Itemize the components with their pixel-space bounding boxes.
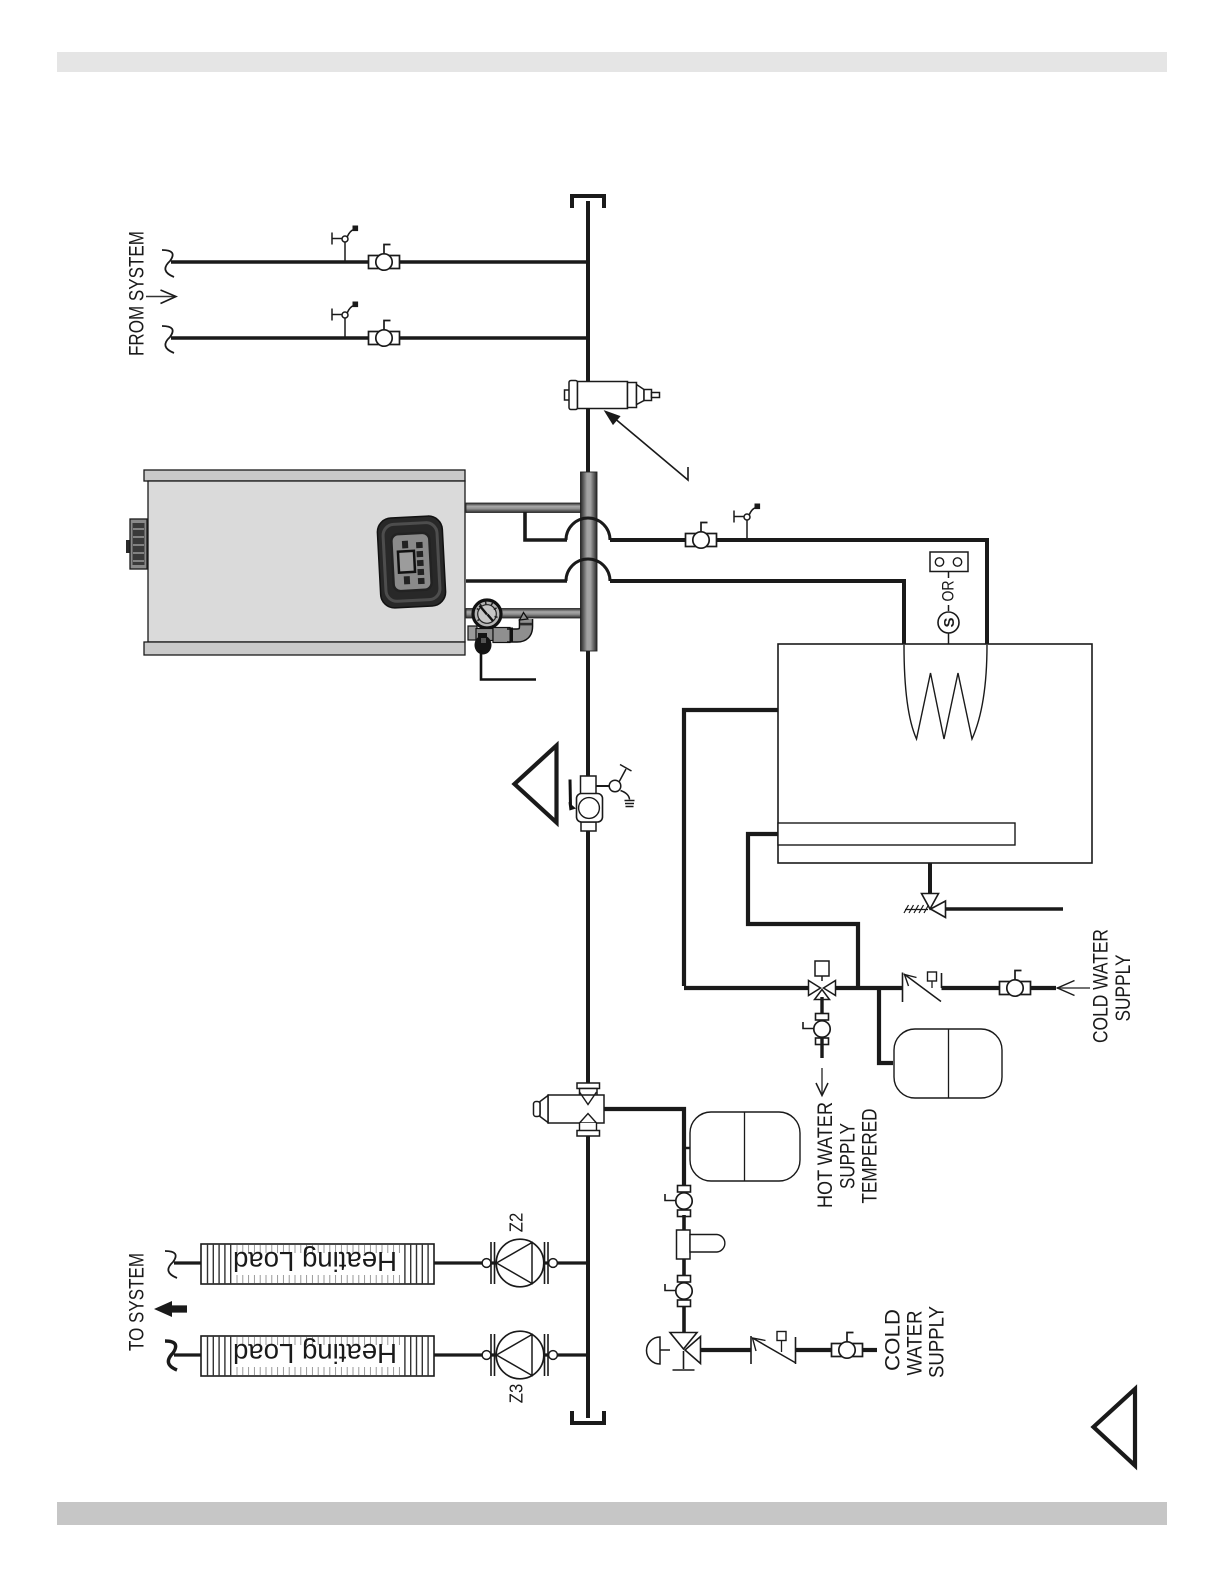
pipe stub to mixing valve [682, 1306, 686, 1333]
squiggle break symbol zone2 [165, 1251, 177, 1278]
svg-text:SUPPLY: SUPPLY [1111, 955, 1135, 1022]
T&P discharge pipe [946, 907, 1064, 911]
tank element/baffle [778, 823, 1015, 845]
heating expansion tank [690, 1112, 800, 1181]
thermal expansion tank stub [879, 986, 893, 1063]
shutoff valve upper on branch [665, 1186, 692, 1217]
drain valve on upper run [734, 504, 760, 541]
pipe hop arc over flange (lower) [566, 559, 610, 581]
heating load pipe zone3 [174, 1353, 588, 1356]
cold supply flow arrow [1057, 987, 1090, 989]
system supply pipe B from boiler [466, 579, 567, 583]
ball valve on cold supply [1000, 971, 1031, 997]
relief valve assembly [468, 626, 477, 640]
boiler body [148, 481, 465, 642]
svg-text:S: S [941, 617, 958, 627]
header flange bar (gray) [581, 472, 598, 651]
check valve symbol [750, 1336, 752, 1364]
cold feed to mixing valve [701, 1348, 752, 1352]
boiler bottom band [144, 642, 465, 655]
hot water flow arrow [821, 1068, 823, 1094]
ball valve on pipe1 [369, 245, 400, 271]
relief valve elbow to return pipe [507, 619, 526, 636]
svg-text:Heating Load: Heating Load [233, 1338, 397, 1369]
backflow preventer on cold supply [902, 973, 904, 1003]
circulator pump Z2 [482, 1239, 557, 1287]
note triangle (bottom right) [1094, 1389, 1136, 1466]
temperature gauge on return [473, 600, 501, 628]
svg-text:HOT WATER: HOT WATER [813, 1102, 837, 1208]
circulator pump Z3 [482, 1331, 557, 1379]
thermostatic mixing valve [670, 1333, 697, 1350]
ball valve on bottom cold supply [832, 1333, 863, 1359]
drain valve on pipe2 [332, 302, 358, 339]
T&P relief valve below tank [928, 863, 932, 893]
boiler return pipe (gray) [466, 609, 582, 619]
purge/side-outlet tee on main pipe [534, 1083, 605, 1136]
top header bar [57, 52, 1167, 72]
flow arrow from system [146, 296, 175, 298]
boiler top band [144, 470, 465, 481]
note triangle (middle) [515, 746, 557, 823]
svg-text:COLD: COLD [881, 1309, 905, 1371]
branch pipe to DHW side [604, 1109, 684, 1186]
drain valve on pipe1 [332, 226, 358, 263]
leader arrow pointing at air separator [613, 417, 688, 480]
heating load radiator zone3 [201, 1336, 434, 1376]
closely spaced tee pipe below supply [525, 512, 567, 540]
svg-text:WATER: WATER [903, 1311, 927, 1376]
squiggle break symbol zone3 [165, 1341, 177, 1370]
air separator on main pipe [565, 381, 660, 410]
shutoff valve lower on branch [665, 1276, 692, 1307]
svg-text:SUPPLY: SUPPLY [836, 1123, 860, 1189]
purge drain fitting [677, 1230, 691, 1259]
bottom footer bar [57, 1502, 1167, 1525]
thermal expansion tank [894, 1029, 1002, 1098]
relief discharge pipe [481, 650, 536, 680]
heating expansion tank stub [684, 1147, 690, 1150]
svg-text:SUPPLY: SUPPLY [925, 1306, 949, 1378]
svg-text:TO SYSTEM: TO SYSTEM [125, 1253, 149, 1351]
indirect water heater tank [778, 644, 1092, 863]
svg-text:Heating Load: Heating Load [233, 1246, 397, 1277]
tank heat exchanger coil [904, 645, 987, 739]
heating load pipe zone2 [174, 1261, 588, 1264]
svg-text:Z3: Z3 [506, 1384, 526, 1404]
svg-text:OR: OR [938, 581, 957, 602]
boiler control panel [377, 515, 447, 608]
cold water inlet piping to tank [748, 834, 858, 986]
pipe stub between purge fitting and lower valve [682, 1259, 686, 1276]
boiler fill valve on main pipe [581, 776, 597, 794]
pipe hop arc over flange (upper) [566, 518, 610, 540]
tempered hot water piping from tank [684, 710, 778, 986]
boiler supply pipe (gray) [466, 503, 581, 513]
svg-text:Z2: Z2 [506, 1213, 526, 1233]
svg-text:TEMPERED: TEMPERED [858, 1109, 882, 1204]
squiggle break symbol pipe1 [162, 250, 174, 277]
ball valve on pipe2 [369, 321, 400, 347]
main header pipe (vertical) [586, 201, 590, 1418]
cold water main run [684, 986, 1056, 990]
svg-text:FROM SYSTEM: FROM SYSTEM [125, 231, 149, 356]
pipe to indirect tank (lower run) [610, 581, 904, 645]
sensor S symbol [938, 612, 959, 633]
three-way mixing valve on cold run [815, 961, 829, 976]
dashed sensor link [948, 572, 950, 611]
ball valve on upper run [686, 523, 717, 549]
boiler left vent connector [126, 540, 132, 553]
heating load radiator zone2 [201, 1244, 434, 1284]
pipe from system 2 [171, 336, 588, 340]
pipe to indirect tank (upper run) [610, 540, 987, 645]
pipe stub between valve and purge fitting [682, 1215, 686, 1230]
svg-text:COLD WATER: COLD WATER [1089, 929, 1113, 1043]
aquastat junction box on tank [930, 552, 968, 572]
squiggle break symbol pipe2 [162, 326, 174, 353]
bottom header bracket [572, 1411, 604, 1423]
tempered supply drop with shutoff [820, 997, 823, 1022]
pipe from system 1 [171, 260, 588, 264]
top header bracket [572, 196, 604, 208]
to system flow arrow (solid) [154, 1301, 187, 1317]
